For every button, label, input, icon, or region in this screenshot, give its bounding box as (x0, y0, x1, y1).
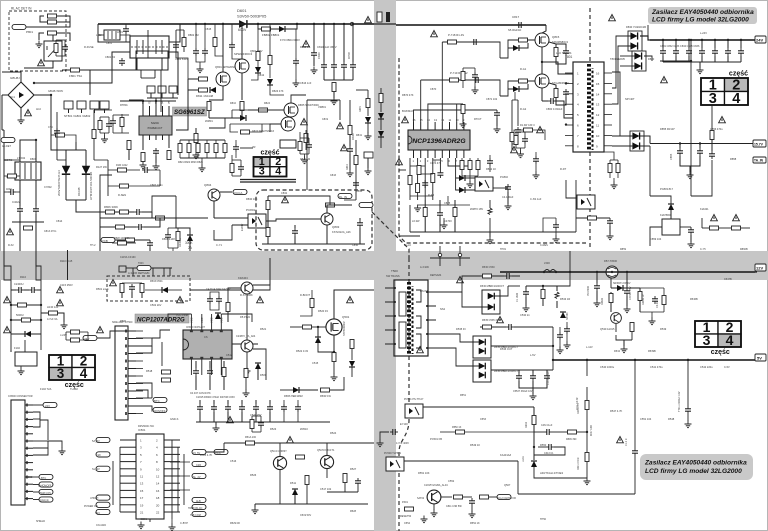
wire (19, 214, 21, 251)
svg-text:D830 YG902C2R: D830 YG902C2R (626, 25, 646, 29)
wire (120, 489, 136, 491)
resistor R858 (732, 226, 741, 230)
resistor R807 (120, 210, 129, 214)
capacitor C534 (624, 288, 630, 296)
wire (180, 439, 190, 441)
label ONOFF cn (39, 482, 53, 487)
svg-text:R1M C222: R1M C222 (116, 164, 128, 167)
wire (112, 126, 114, 133)
wire (65, 135, 76, 142)
wire (254, 504, 256, 507)
node junction (35, 139, 37, 141)
dashed diagonal hot-cold (372, 212, 409, 258)
thermistor VA802 (90, 101, 99, 109)
svg-text:L-5V: L-5V (530, 353, 536, 357)
wire (327, 205, 335, 213)
wire (647, 25, 649, 40)
wire (40, 420, 48, 440)
resistor R853 (48, 31, 57, 35)
svg-text:C2383Y_TA_A04: C2383Y_TA_A04 (236, 335, 256, 338)
wire (380, 137, 382, 148)
wire (612, 72, 620, 136)
wire (104, 133, 106, 136)
wire (480, 276, 488, 296)
wire (711, 196, 713, 251)
ground (441, 222, 448, 229)
warning (301, 118, 308, 124)
diode D530b (488, 304, 495, 311)
wire (120, 475, 136, 477)
wire (221, 314, 252, 322)
wire (334, 290, 352, 319)
ground (685, 421, 692, 428)
capacitor C531 (523, 289, 529, 297)
wire (20, 108, 22, 117)
resistor R505 (332, 353, 336, 362)
wire (147, 97, 178, 99)
wire (520, 148, 522, 151)
wire (56, 112, 58, 160)
wire (162, 135, 164, 140)
wire (434, 122, 436, 130)
wire (436, 348, 479, 366)
svg-text:11: 11 (140, 475, 143, 479)
resistor R542 (532, 416, 536, 425)
svg-text:C553: C553 (480, 418, 487, 421)
svg-text:T801 EER35: T801 EER35 (610, 57, 625, 61)
wire (343, 24, 345, 62)
wire (204, 24, 206, 48)
svg-text:D103B: D103B (77, 187, 81, 196)
wire (152, 212, 155, 218)
wire (128, 338, 136, 340)
wire (127, 242, 136, 244)
label io 3 (96, 495, 110, 500)
label BTC cn (39, 474, 53, 479)
label io r5 (192, 511, 206, 516)
wire (183, 30, 185, 52)
capacitor C807 (136, 224, 144, 230)
capacitor C804 (110, 118, 116, 126)
resistor R531 (541, 290, 545, 299)
wire (518, 493, 635, 495)
wire (279, 443, 281, 457)
capacitor C550 (557, 332, 563, 340)
wire (179, 140, 181, 144)
resistor R103 (49, 311, 58, 315)
svg-text:R6R2: R6R2 (525, 421, 528, 428)
connector P501 pin 7 (125, 375, 127, 378)
svg-text:L802: L802 (96, 34, 102, 37)
svg-text:CN-GND: CN-GND (96, 524, 106, 527)
svg-text:KST2222A_A26: KST2222A_A26 (332, 230, 351, 234)
title label top (648, 7, 757, 24)
resistor R536 (609, 294, 613, 303)
diode D530a (488, 293, 495, 300)
wire (170, 461, 190, 463)
mosfet Q501 (326, 319, 342, 335)
wire (122, 282, 142, 284)
capacitor C880 (533, 156, 539, 164)
svg-text:CN500 CONNECTOR: CN500 CONNECTOR (8, 395, 33, 398)
warning (303, 40, 310, 46)
wire (385, 329, 394, 331)
label io r1 (192, 461, 206, 466)
wire (471, 506, 473, 512)
svg-text:TP81: TP81 (500, 248, 507, 251)
wire (609, 173, 611, 179)
wire (144, 218, 160, 227)
wire (33, 484, 39, 486)
wire (650, 196, 671, 204)
svg-text:D535 IN: D535 IN (456, 327, 466, 331)
svg-text:SG6961SZ: SG6961SZ (174, 109, 205, 116)
line filter windings (136, 40, 138, 54)
wire (410, 165, 425, 167)
ground (169, 524, 176, 531)
CN500 pin 2 (26, 411, 28, 414)
resistor C882R (514, 136, 518, 145)
wire (161, 93, 163, 98)
svg-text:R823 47K: R823 47K (272, 89, 284, 93)
wire (224, 153, 226, 159)
wire (266, 219, 321, 221)
wire (240, 172, 242, 176)
resistor R538 (630, 323, 634, 332)
wire (474, 80, 476, 88)
ground (18, 368, 25, 375)
wire (128, 330, 136, 332)
wire (670, 210, 672, 219)
label io 2 (96, 466, 110, 471)
capacitor C520 (197, 404, 203, 412)
wire (251, 429, 253, 433)
wire (149, 135, 151, 140)
wire (439, 200, 441, 210)
wire (463, 496, 472, 498)
node junction (586, 359, 588, 361)
svg-text:C515: C515 (312, 361, 319, 365)
resistor R510 (162, 370, 171, 374)
wire (349, 135, 351, 146)
wire (480, 326, 482, 328)
node junction (33, 82, 35, 84)
CN500 pin 14 (26, 497, 28, 500)
wire (232, 109, 284, 111)
resistor R540 (585, 401, 589, 410)
wire (176, 29, 184, 31)
diode D812b (255, 67, 261, 73)
wire (441, 150, 443, 158)
wire (176, 58, 188, 79)
capacitor C501 (129, 284, 135, 292)
wire (557, 272, 570, 286)
node junction (596, 271, 598, 273)
wire (246, 110, 254, 118)
svg-text:R3900 1V: R3900 1V (642, 294, 645, 305)
wire (526, 285, 557, 287)
wire (538, 446, 546, 448)
svg-text:C846: C846 (352, 244, 359, 247)
svg-text:R550: R550 (540, 443, 547, 447)
svg-text:ZD870 18V: ZD870 18V (470, 207, 483, 211)
wire (441, 42, 443, 122)
T501 right pin 10 (426, 347, 428, 349)
wire (326, 225, 328, 244)
wire (396, 24, 546, 26)
svg-text:R527: R527 (350, 467, 357, 471)
svg-text:C5537 330uF 10V: C5537 330uF 10V (513, 390, 533, 393)
wire (157, 268, 159, 276)
wire (565, 134, 573, 136)
ground (243, 390, 250, 397)
wire (25, 426, 33, 428)
wire (489, 155, 491, 158)
wire (152, 196, 176, 212)
svg-text:14: 14 (596, 92, 600, 96)
diode D103B (62, 166, 70, 174)
wire (152, 330, 170, 338)
svg-text:D530 MBRF10200CT: D530 MBRF10200CT (480, 285, 505, 288)
wire (149, 251, 151, 268)
capacitor CY130 (390, 429, 398, 435)
svg-text:ADJTKAH 4/TOE3: ADJTKAH 4/TOE3 (540, 471, 564, 475)
wire (34, 52, 130, 83)
resistor R513 (305, 476, 309, 485)
wire (404, 460, 518, 462)
svg-text:C4700: C4700 (444, 219, 452, 223)
wire (57, 159, 66, 161)
diode D832 (630, 42, 637, 49)
ground (624, 306, 631, 313)
wire (136, 346, 152, 353)
wire (113, 132, 129, 134)
wire (213, 201, 215, 218)
wire (33, 412, 40, 427)
wire (688, 40, 690, 48)
wire (351, 349, 353, 360)
resistor R892 (608, 164, 612, 173)
wire (10, 350, 12, 352)
resistor R828 (118, 241, 127, 245)
ground C882 (517, 151, 524, 158)
wire (255, 503, 368, 505)
svg-text:R802 1M: R802 1M (188, 33, 199, 37)
transistor Q505 (320, 455, 333, 468)
svg-text:IC501: IC501 (140, 517, 147, 521)
wire (436, 320, 482, 327)
wire (424, 200, 426, 207)
ground (244, 368, 251, 375)
wire (136, 368, 143, 370)
warning scatter (287, 436, 294, 442)
wire (312, 326, 326, 328)
wire (323, 24, 325, 62)
resistor R546 (662, 296, 666, 305)
wire (168, 227, 178, 229)
svg-text:SEC: SEC (95, 512, 100, 515)
wire (189, 290, 191, 301)
wire (141, 77, 155, 79)
wire (300, 153, 309, 155)
capacitor C815a (173, 42, 179, 50)
connector P501 pin 5 (125, 360, 127, 363)
wire (374, 463, 386, 465)
svg-text:SAT02: SAT02 (417, 497, 425, 500)
svg-text:D534: D534 (614, 350, 621, 353)
wire (136, 375, 143, 377)
wire (195, 143, 197, 152)
wire (147, 78, 149, 88)
wire (240, 147, 253, 149)
wire (120, 504, 136, 506)
capacitor C883 (553, 222, 559, 230)
svg-text:Q815: Q815 (552, 35, 560, 39)
wire (306, 100, 308, 190)
resistor R801a (8, 174, 17, 178)
wire (142, 106, 144, 116)
svg-text:częśc: częśc (711, 349, 730, 356)
table czesc part4 (695, 319, 741, 348)
node junction (662, 39, 664, 41)
wire (380, 88, 382, 93)
wire (11, 304, 17, 306)
wire (58, 313, 64, 322)
wire (164, 453, 180, 455)
wire (81, 109, 83, 113)
wire (4, 191, 8, 193)
T501 left pin 2 (394, 301, 396, 303)
wire (150, 169, 160, 171)
svg-text:R842 1M: R842 1M (300, 158, 310, 161)
ground (533, 172, 540, 179)
svg-text:R834: R834 (356, 189, 363, 193)
wire (644, 56, 652, 61)
resistor R825 (259, 108, 268, 112)
svg-text:C2400U: C2400U (14, 282, 24, 286)
wire (711, 105, 713, 130)
wire (543, 218, 556, 232)
ground (61, 322, 68, 329)
capacitor C855 (677, 148, 683, 156)
capacitor C535 (506, 324, 514, 330)
wire (604, 124, 612, 126)
transistor Q502 (241, 340, 253, 352)
wire (164, 511, 180, 513)
wire (622, 312, 640, 318)
svg-text:R529 0R: R529 0R (230, 522, 240, 525)
wire (190, 359, 192, 375)
wire (687, 360, 689, 376)
wire (396, 24, 546, 26)
ground (365, 168, 372, 175)
wire (150, 518, 164, 520)
svg-text:R-G1: R-G1 (520, 67, 527, 71)
transformer T802 (15, 162, 41, 180)
wire (660, 60, 691, 62)
NCP1207 pin tick top 1 (200, 330, 203, 332)
diode D860 (378, 113, 384, 119)
svg-text:R51A 100: R51A 100 (245, 436, 257, 439)
capacitor C549b (546, 444, 554, 450)
capacitor C830 (660, 48, 666, 56)
diode D104B (82, 166, 90, 174)
wire (493, 187, 508, 189)
label io 1 (96, 452, 110, 457)
wire (170, 489, 190, 491)
wire (120, 482, 136, 484)
node junction (586, 359, 588, 361)
wire (149, 519, 151, 522)
capacitor C548 (544, 429, 552, 435)
svg-text:LCD firmy LG model 32LG2000: LCD firmy LG model 32LG2000 (652, 17, 749, 24)
diode D861 (513, 45, 519, 51)
node junction (740, 39, 742, 41)
resistor R512 (222, 368, 226, 377)
svg-text:CY802: CY802 (44, 186, 52, 189)
resistor R872 (448, 40, 457, 44)
svg-text:R546B: R546B (690, 298, 698, 301)
capacitor C860 (548, 98, 556, 104)
node junction (542, 285, 544, 287)
warning (431, 30, 438, 36)
capacitor C552b (564, 326, 570, 334)
mosfet Q807 (281, 117, 295, 131)
resistor R811 (141, 153, 145, 162)
wire (418, 175, 420, 187)
wire (610, 303, 612, 312)
svg-text:L-24V: L-24V (700, 31, 707, 35)
wire (460, 350, 479, 352)
wire (19, 180, 21, 206)
wire (12, 221, 44, 223)
wire (164, 497, 180, 499)
svg-text:C313 C1: C313 C1 (544, 452, 554, 455)
wire (640, 145, 650, 147)
ground (523, 305, 530, 312)
svg-text:POWER-CCT: POWER-CCT (148, 127, 163, 130)
wire (586, 387, 588, 400)
label PWM cn (39, 489, 53, 494)
svg-text:VCC: VCC (210, 317, 214, 323)
node junction (740, 39, 742, 41)
resistor R823 (205, 144, 209, 153)
resistor R894 (510, 133, 514, 142)
optocoupler PC502 (386, 457, 404, 471)
transistor Q506 (427, 490, 441, 504)
wire (410, 231, 576, 233)
svg-text:3: 3 (703, 332, 711, 348)
svg-text:Q530 A1015: Q530 A1015 (600, 327, 615, 331)
oc node2 (438, 253, 441, 256)
capacitor C530 (504, 273, 512, 279)
capacitor C803b (202, 48, 208, 56)
svg-text:R539B: R539B (648, 350, 656, 353)
capacitor CY 86 (158, 86, 166, 93)
wire (399, 235, 420, 237)
node junction (40, 319, 42, 321)
capacitor C840 box (280, 140, 296, 148)
node junction (313, 23, 315, 25)
wire (36, 251, 41, 280)
resistor R816 (207, 102, 211, 111)
wire (66, 199, 86, 201)
wire (333, 462, 358, 478)
wire (626, 272, 628, 288)
wire (142, 140, 144, 150)
wire (128, 353, 136, 355)
wire (413, 150, 415, 158)
